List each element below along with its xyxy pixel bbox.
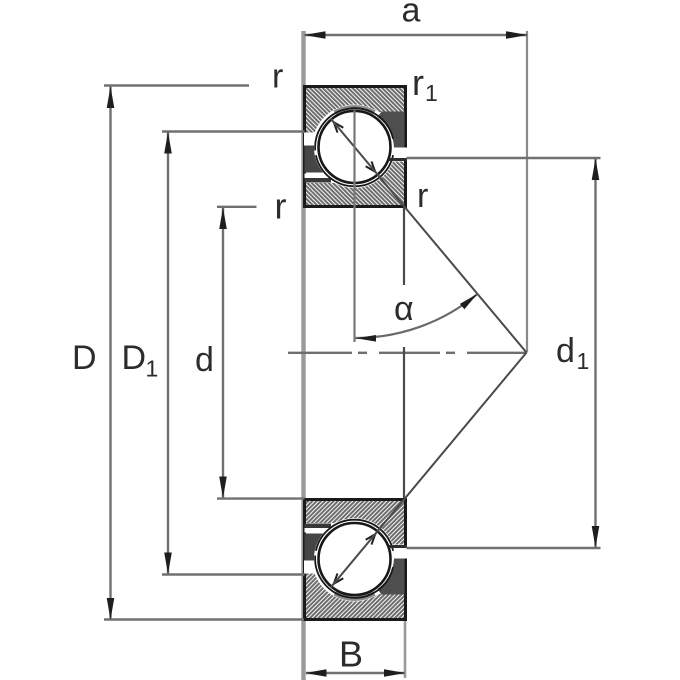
upper bearing section	[304, 87, 407, 207]
dimension d1 arrowhead top	[592, 159, 600, 181]
svg-text:r: r	[272, 58, 283, 96]
dimension B arrowhead left	[305, 669, 327, 677]
contact line upper ball to apex	[331, 119, 527, 353]
bore extension line	[301, 31, 305, 680]
svg-text:1: 1	[577, 348, 590, 374]
radial reference line upper	[403, 208, 405, 286]
dimension a arrowhead right	[506, 31, 528, 39]
dimension D arrowhead top	[107, 87, 115, 109]
dimension D1 leader top	[162, 130, 305, 132]
dimension D1 arrowhead top	[164, 132, 172, 154]
svg-text:d: d	[556, 332, 575, 370]
svg-text:B: B	[339, 634, 363, 675]
svg-text:r: r	[417, 177, 428, 215]
dimension B arrowhead right	[384, 669, 406, 677]
contact line lower ball to apex	[331, 353, 527, 588]
dimension d1 leader top	[407, 157, 601, 159]
dimension d1 line	[594, 158, 596, 548]
dimension D1 line	[167, 132, 169, 575]
bearing axis centerline (dash-dot)	[288, 352, 527, 354]
svg-text:a: a	[402, 0, 421, 30]
dimension a arrowhead left	[304, 31, 326, 39]
svg-text:d: d	[195, 341, 214, 379]
dimension D leader bottom	[104, 618, 304, 620]
dimension d arrowhead bottom	[219, 477, 227, 499]
dimension d1 leader bottom	[407, 547, 601, 549]
dimension D line	[109, 86, 111, 620]
dimension d leader top	[217, 206, 257, 208]
extension line for a (right)	[526, 31, 528, 353]
contact angle alpha arc	[356, 294, 478, 338]
svg-text:r: r	[412, 62, 424, 103]
dimension D1 leader bottom	[162, 573, 305, 575]
svg-text:1: 1	[146, 356, 159, 382]
lower bearing section (mirrored)	[304, 500, 407, 620]
dimension d leader bottom	[217, 497, 305, 499]
svg-text:D: D	[72, 339, 97, 377]
dimension B line	[306, 672, 405, 674]
dimension a line	[305, 34, 528, 36]
dimension D1 arrowhead bottom	[164, 553, 172, 575]
dimension D leader top	[104, 84, 249, 86]
svg-text:r: r	[275, 186, 287, 227]
svg-text:1: 1	[425, 80, 438, 106]
radial reference line lower	[403, 347, 405, 498]
svg-text:α: α	[394, 290, 414, 328]
dimension d arrowhead top	[219, 208, 227, 230]
extension line for B (right)	[404, 620, 407, 678]
svg-text:D: D	[122, 339, 147, 377]
dimension D arrowhead bottom	[107, 598, 115, 620]
alpha arc arrowhead right	[460, 294, 478, 310]
ball center reference line	[353, 111, 355, 343]
alpha arc arrowhead left	[356, 335, 376, 342]
dimension d line	[222, 207, 224, 499]
dimension d1 arrowhead bottom	[592, 526, 600, 548]
